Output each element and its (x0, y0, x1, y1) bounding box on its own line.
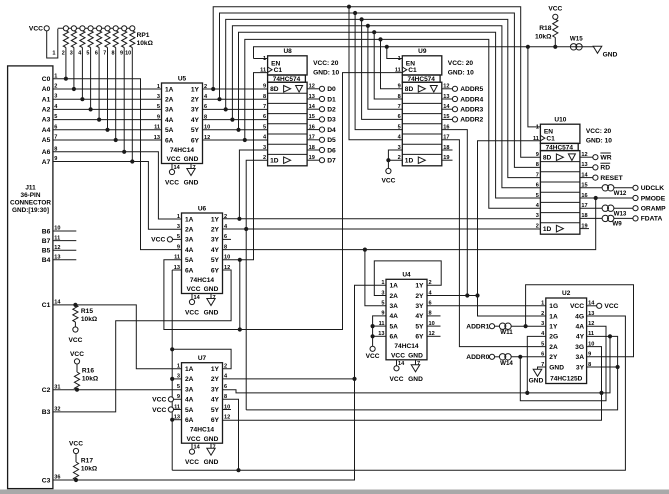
svg-text:4: 4 (78, 51, 81, 57)
svg-text:A3: A3 (42, 117, 51, 124)
junction RP1 on A6 (122, 150, 126, 154)
svg-text:C1: C1 (42, 302, 51, 309)
wire U8 output 19 (307, 159, 320, 161)
junction 3G riser on line A (599, 391, 603, 395)
wire U4 3Y to U2 1G (427, 305, 546, 307)
wire U7 5Y stub (223, 409, 232, 411)
junction RP1 on A4 (105, 128, 109, 132)
junction R15 on C1 (73, 303, 77, 307)
wire U4 1Y to 2A loop (374, 261, 441, 296)
svg-text:5: 5 (86, 51, 89, 57)
svg-text:1A: 1A (549, 313, 558, 320)
junction 5Y loop riser (238, 327, 242, 331)
svg-text:2Y: 2Y (549, 354, 558, 361)
wire ADDR0 to W14 (494, 356, 499, 358)
junction R18 to enable line (553, 45, 557, 49)
svg-text:7: 7 (103, 51, 106, 57)
wire U8 EN pin 1 (254, 58, 268, 60)
wire U10 pin 17 (580, 207, 602, 209)
wire bus tap to U9 input (368, 26, 402, 109)
svg-text:5A: 5A (390, 323, 399, 330)
junction RP1 on A7 (130, 159, 134, 163)
wire U7 1Y loop top (172, 349, 231, 368)
svg-text:3Y: 3Y (211, 237, 220, 244)
wire W9 to FDATA (614, 217, 633, 219)
svg-text:ORAMP: ORAMP (641, 206, 666, 213)
svg-text:D4: D4 (327, 127, 336, 134)
svg-text:4A: 4A (185, 247, 194, 254)
junction U7 1Y net at loop (170, 347, 174, 351)
svg-text:RD: RD (600, 165, 610, 172)
svg-text:D1: D1 (327, 96, 336, 103)
svg-text:R15: R15 (81, 308, 93, 315)
svg-text:VCC: VCC (381, 178, 395, 185)
junction U4 6A (371, 334, 375, 338)
wire U6 4Y PMODE line (223, 198, 596, 250)
RP1 resistor element 4 (80, 31, 85, 48)
RP1 resistor element 3 (71, 31, 76, 48)
wire RP1 pin 9 lead (123, 48, 125, 152)
RP1 pin 10 terminal (130, 26, 135, 31)
terminal ADDR2 (452, 117, 457, 122)
wire U4 4A 5A 6A to VCC (373, 316, 386, 347)
junction bus tap 5 (372, 30, 376, 34)
svg-text:5A: 5A (165, 127, 174, 134)
svg-text:VCC: VCC (185, 310, 199, 317)
wire U10 output RD (580, 166, 593, 168)
svg-text:5Y: 5Y (415, 323, 424, 330)
svg-text:36-PIN: 36-PIN (21, 192, 41, 199)
wire bus line from U5 6Y (245, 39, 541, 208)
svg-text:U9: U9 (418, 48, 427, 55)
svg-text:74HC14: 74HC14 (394, 343, 419, 350)
wire U2 3Y stub (587, 366, 618, 368)
wire U8 output 15 (307, 118, 320, 120)
svg-text:VCC: 20: VCC: 20 (448, 60, 474, 67)
wire U10 pin 19 stub (580, 228, 589, 230)
jumper W13 (602, 205, 614, 211)
svg-text:VCC: VCC (152, 397, 166, 404)
svg-text:VCC: VCC (548, 6, 562, 13)
RP1 resistor element 2 (63, 31, 68, 48)
svg-text:WR: WR (600, 155, 611, 162)
U6 ground symbol (207, 299, 215, 306)
junction enable to U9 (385, 45, 389, 49)
svg-text:3A: 3A (576, 354, 585, 361)
junction on U5 6Y output (243, 138, 247, 142)
junction 2G on line A (525, 391, 529, 395)
svg-text:6A: 6A (390, 334, 399, 341)
svg-text:1Y: 1Y (549, 324, 558, 331)
svg-text:R18: R18 (539, 25, 552, 32)
U4 pin 14 VCC stub (396, 360, 398, 366)
svg-text:74HC14: 74HC14 (190, 277, 215, 284)
svg-text:U2: U2 (562, 290, 571, 297)
resistor R18 (535, 6, 563, 47)
overline RD (600, 162, 610, 164)
wire B5 stub (53, 249, 76, 251)
junction U7 2Y on C3 riser (352, 377, 356, 381)
svg-text:3: 3 (70, 51, 73, 57)
RP1 resistor element 10 (130, 31, 135, 48)
wire U8 output 13 (307, 98, 320, 100)
wire U5 4Y output (203, 119, 268, 121)
wire jumper W11 to U2 1Y (511, 325, 546, 327)
svg-text:VCC: VCC (70, 351, 84, 358)
svg-text:A7: A7 (42, 159, 51, 166)
svg-text:VCC: VCC (68, 337, 82, 344)
junction U4 5A (371, 324, 375, 328)
svg-text:14: 14 (398, 361, 405, 367)
svg-text:10: 10 (125, 51, 131, 57)
svg-text:5: 5 (177, 384, 180, 390)
IC U8 control block (268, 56, 308, 75)
RP1 common rail (58, 27, 133, 29)
svg-text:RESET: RESET (600, 175, 623, 182)
svg-text:UDCLK: UDCLK (641, 185, 665, 192)
svg-text:VCC: VCC (69, 440, 83, 447)
svg-text:10kΩ: 10kΩ (81, 316, 98, 323)
svg-text:VCC: VCC (151, 237, 165, 244)
svg-text:2A: 2A (185, 227, 194, 234)
svg-text:VCC: VCC (167, 156, 181, 163)
wire U10 EN pin 1 (528, 47, 541, 127)
wire U7 6A tap (172, 419, 181, 421)
svg-text:W13: W13 (614, 210, 627, 217)
wire U10 output WR (580, 156, 593, 158)
wire U9 pin 18 stub (442, 149, 453, 151)
wire C0 to U6 4A (53, 79, 182, 250)
wire bus line from U5 4Y (232, 26, 540, 188)
overline WR (600, 152, 610, 154)
svg-text:6A: 6A (185, 417, 194, 424)
wire U6 3Y stub (223, 238, 232, 240)
svg-text:U6: U6 (198, 205, 207, 212)
IC U10 latch array body (540, 151, 580, 235)
wire U4 2Y node to U10 C1 (427, 141, 540, 296)
terminal D2 (319, 107, 324, 112)
junction ADDR1 net (524, 324, 528, 328)
wire riser to U8 pin 3 (239, 150, 267, 219)
IC U7 74HC14 body (182, 363, 223, 444)
RP1 pin 5 terminal (88, 26, 93, 31)
wire A0 to U5 (53, 88, 162, 90)
svg-text:B3: B3 (42, 409, 51, 416)
svg-text:VCC: VCC (391, 353, 405, 360)
RP1 resistor element 7 (105, 31, 110, 48)
svg-text:VCC: VCC (390, 376, 404, 383)
svg-text:A0: A0 (42, 86, 51, 93)
wire VCC to U7 5A (173, 409, 181, 411)
wire RP1 pin 3 lead (73, 48, 75, 89)
svg-text:VCC: VCC (152, 407, 166, 414)
wire U6 6Y to B3 (53, 270, 231, 412)
wire U9 output 15 (442, 118, 453, 120)
svg-text:PMODE: PMODE (641, 195, 666, 202)
svg-text:GND: GND (184, 180, 199, 187)
wire bus line from U5 5Y (239, 32, 541, 198)
junction RP1 on A1 (80, 97, 84, 101)
terminal ADDR5 (452, 86, 457, 91)
junction U9 16 on U4 2Y line (465, 293, 469, 297)
RP1 resistor element 9 (122, 31, 127, 48)
wire bus tap to U9 input (362, 19, 403, 119)
svg-text:GND: GND (204, 286, 219, 293)
junction U4 2Y node (475, 293, 479, 297)
svg-text:6Y: 6Y (211, 267, 220, 274)
svg-text:J11: J11 (25, 185, 36, 192)
svg-text:1D: 1D (543, 226, 552, 233)
resistor R15 (68, 305, 97, 344)
RP1 resistor element 6 (97, 31, 102, 48)
svg-text:VCC: VCC (187, 286, 201, 293)
terminal ORAMP (633, 206, 638, 211)
VCC terminal at RP1 (44, 26, 49, 31)
terminal D1 (319, 96, 324, 101)
svg-text:4A: 4A (576, 324, 585, 331)
junction U7 2A tap (170, 377, 174, 381)
jumper W11 (499, 323, 511, 329)
svg-text:2A: 2A (185, 376, 194, 383)
IC U5 74HC14 body (162, 83, 203, 164)
svg-text:12: 12 (224, 415, 230, 421)
VCC terminal U6 3A (167, 237, 172, 242)
RP1 pin 2 terminal (63, 26, 68, 31)
svg-text:A1: A1 (42, 96, 51, 103)
RP1 pin 9 terminal (122, 26, 127, 31)
junction on U5 3Y output (224, 107, 228, 111)
svg-text:8: 8 (112, 51, 115, 57)
svg-text:U7: U7 (198, 355, 207, 362)
svg-text:10kΩ: 10kΩ (81, 465, 98, 472)
wire VCC to U6 3A (172, 238, 181, 240)
svg-text:1Y: 1Y (211, 216, 220, 223)
wire A3 to U5 (53, 119, 162, 121)
junction U6 1Y to U8 pin 3 (237, 217, 241, 221)
svg-text:6A: 6A (185, 267, 194, 274)
svg-text:C0: C0 (42, 76, 51, 83)
U4 pin 7 GND stub (415, 360, 417, 365)
VCC terminal at U4 inputs (370, 346, 375, 351)
RP1 pin 4 terminal (80, 26, 85, 31)
svg-text:GND: GND (204, 459, 219, 466)
svg-text:R17: R17 (81, 457, 93, 464)
wire U9 pin 19 stub (442, 159, 453, 161)
svg-text:6Y: 6Y (415, 334, 424, 341)
U6 pin 14 VCC stub (191, 294, 193, 300)
wire U5 3Y output (203, 108, 268, 110)
svg-text:4A: 4A (165, 117, 174, 124)
wire W13 to ORAMP (614, 207, 633, 209)
wire VCC to U7 4A (173, 398, 181, 400)
svg-text:1Y: 1Y (211, 366, 220, 373)
RP1 pin 3 terminal (71, 26, 76, 31)
svg-text:1: 1 (398, 56, 401, 62)
wire bus tap to U9 input (349, 7, 402, 140)
wire U6 1Y to U10 pin 3 (223, 218, 541, 220)
wire U9 output 12 (442, 88, 453, 90)
U7 VCC pin circle (189, 449, 194, 454)
IC U6 74HC14 body (182, 213, 223, 294)
junction 3Y on 4Y drop (616, 365, 620, 369)
wire ADDR0 loop to U2 4A (520, 326, 606, 401)
wire U10 pin 18 (580, 217, 602, 219)
junction bus tap 4 (366, 24, 370, 28)
svg-text:VCC: VCC (604, 303, 618, 310)
svg-text:1D: 1D (405, 158, 414, 165)
svg-text:1A: 1A (185, 366, 194, 373)
IC U4 74HC14 body (386, 279, 427, 360)
U4 VCC pin circle (394, 366, 399, 371)
svg-text:1A: 1A (390, 283, 399, 290)
terminal UDCLK (633, 185, 638, 190)
svg-text:W14: W14 (500, 360, 513, 367)
junction RP1 on A5 (114, 138, 118, 142)
svg-text:FDATA: FDATA (641, 216, 663, 223)
junction on U5 1Y output (211, 87, 215, 91)
U7 pin 14 VCC stub (191, 443, 193, 449)
svg-text:4A: 4A (185, 397, 194, 404)
junction PMODE line to U4 3A (363, 248, 367, 252)
U5 VCC pin circle (169, 169, 174, 174)
wire jumper W14 to U2 2Y (511, 356, 546, 358)
wire U9 pin 17 to U2 2A (442, 140, 546, 347)
svg-text:8D: 8D (270, 86, 279, 93)
svg-text:4G: 4G (575, 313, 584, 320)
svg-text:3A: 3A (165, 107, 174, 114)
junction on U5 2Y output (217, 97, 221, 101)
svg-text:5A: 5A (185, 257, 194, 264)
wire U5 2Y output (203, 98, 268, 100)
terminal PMODE (633, 195, 638, 200)
svg-text:1: 1 (52, 51, 55, 57)
RP1 pin 7 terminal (105, 26, 110, 31)
wire B6 stub (53, 230, 76, 232)
IC U8 latch array body (268, 82, 308, 166)
junction enable to U10 (526, 45, 530, 49)
junction R16 on C2 (75, 388, 79, 392)
svg-text:3Y: 3Y (576, 364, 585, 371)
terminal ADDR3 (452, 107, 457, 112)
junction RP1 on A0 (72, 87, 76, 91)
wire ADDR1 to W11 (494, 325, 499, 327)
wire RP1 pin 4 lead (81, 48, 83, 100)
terminal RD (593, 165, 598, 170)
junction U7 4Y on bottom line (236, 468, 240, 472)
terminal ADDR4 (452, 96, 457, 101)
wire U8 output 17 (307, 139, 320, 141)
wire C2 to U7 3A (53, 389, 182, 391)
svg-text:D0: D0 (327, 86, 336, 93)
svg-text:GND: GND (603, 52, 618, 59)
svg-text:C3: C3 (42, 477, 51, 484)
svg-text:1D: 1D (270, 158, 279, 165)
wire U6 5Y feedback to 5A (164, 260, 240, 330)
svg-text:U4: U4 (402, 272, 411, 279)
svg-text:ADDR0: ADDR0 (466, 354, 489, 361)
svg-text:A2: A2 (42, 107, 51, 114)
svg-text:4Y: 4Y (211, 247, 220, 254)
svg-text:GND: 10: GND: 10 (448, 69, 474, 76)
wire VCC drop U9 (387, 160, 389, 168)
svg-text:10kΩ: 10kΩ (137, 40, 154, 47)
svg-text:B6: B6 (42, 228, 51, 235)
svg-text:5Y: 5Y (211, 407, 220, 414)
svg-text:2Y: 2Y (211, 376, 220, 383)
svg-text:B7: B7 (42, 238, 51, 245)
svg-text:4A: 4A (390, 313, 399, 320)
svg-text:14: 14 (194, 445, 201, 451)
svg-text:4Y: 4Y (211, 397, 220, 404)
svg-text:GND: GND (204, 310, 219, 317)
wire A6 to U6 1A (53, 152, 182, 219)
svg-text:2G: 2G (549, 334, 558, 341)
terminal WR (593, 155, 598, 160)
terminal D7 (319, 158, 324, 163)
jumper W9 (602, 215, 614, 221)
svg-text:GND: GND (549, 364, 564, 371)
IC U9 control block (402, 56, 442, 75)
wire A7 to U6 2A (53, 162, 182, 230)
svg-text:C1: C1 (274, 67, 283, 74)
svg-text:6: 6 (95, 51, 98, 57)
wire U5 6Y output (203, 139, 268, 141)
svg-text:5Y: 5Y (191, 127, 200, 134)
svg-text:B4: B4 (42, 257, 51, 264)
svg-text:3A: 3A (390, 303, 399, 310)
svg-text:5Y: 5Y (211, 257, 220, 264)
U5 pin 14 VCC stub (171, 164, 173, 170)
svg-text:3Y: 3Y (415, 303, 424, 310)
junction U7 6A tap (170, 418, 174, 422)
wire A5 to U5 (53, 139, 162, 141)
wire U6 2Y to U10 pin 2 (223, 228, 541, 230)
RP1 pin 6 terminal (97, 26, 102, 31)
wire U7 6Y to U2 3G riser (223, 347, 602, 421)
terminal D0 (319, 86, 324, 91)
wire U9 pin 16 to U4 2Y node (442, 130, 468, 296)
svg-text:1A: 1A (165, 86, 174, 93)
svg-text:D6: D6 (327, 147, 336, 154)
wire bus line from U5 3Y (226, 19, 541, 177)
resistor R17 (69, 440, 98, 480)
wire U2 2G to enable line (527, 336, 546, 393)
junction on U6 5Y (238, 258, 242, 262)
wire U4 5Y stub (427, 325, 441, 327)
U5 pin 7 GND stub (190, 164, 192, 169)
wire U10 pin 16 PMODE (580, 197, 633, 199)
svg-text:W9: W9 (612, 221, 622, 228)
svg-text:6Y: 6Y (191, 137, 200, 144)
VCC terminal U7 5A (168, 407, 173, 412)
U6 pin 7 GND stub (210, 294, 212, 299)
svg-text:2A: 2A (549, 344, 558, 351)
svg-text:3Y: 3Y (211, 386, 220, 393)
IC U10 control block (540, 124, 580, 143)
junction bus tap 3 (360, 17, 364, 21)
wire U5 5Y output (203, 129, 268, 131)
IC U9 latch array body (402, 82, 442, 166)
wire U4 2Y node down to U2 1A (478, 296, 546, 317)
svg-text:A4: A4 (42, 127, 51, 134)
svg-text:6: 6 (224, 384, 227, 390)
svg-text:10kΩ: 10kΩ (535, 34, 552, 41)
svg-text:14: 14 (174, 165, 181, 171)
wire U7 1Y net to U2 4G (172, 316, 625, 470)
svg-text:CONNECTOR: CONNECTOR (10, 200, 51, 207)
terminal ADDR0 (489, 354, 494, 359)
svg-text:6Y: 6Y (211, 417, 220, 424)
